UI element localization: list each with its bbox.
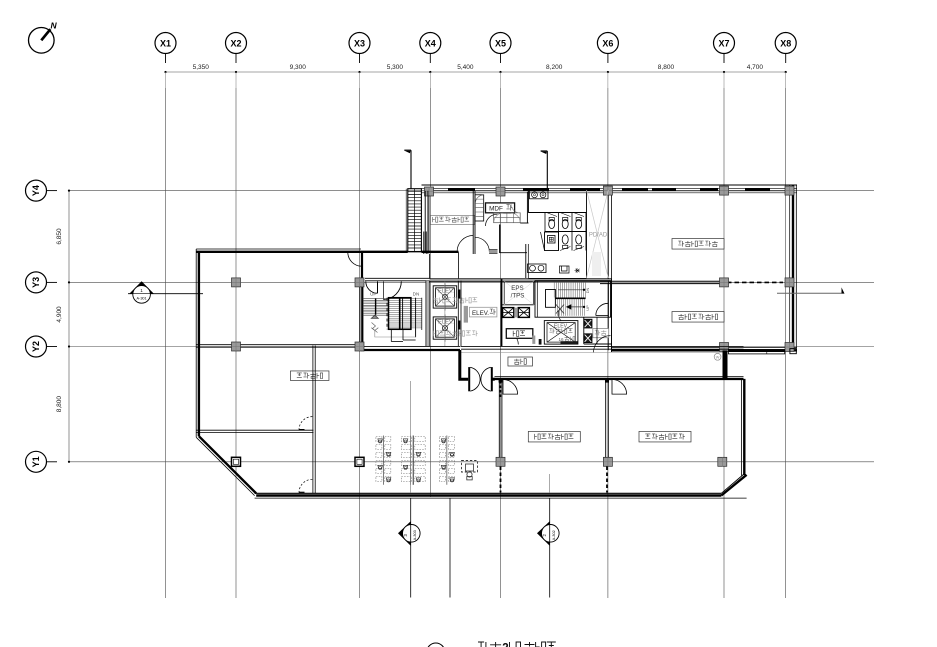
vertical dimension line — [68, 191, 70, 462]
elevator hall east wall — [457, 281, 459, 347]
elevator labels korean — [433, 298, 478, 337]
svg-text:ELEV.: ELEV. — [438, 289, 454, 295]
svg-text:5,350: 5,350 — [193, 64, 210, 71]
section marker left of building — [128, 281, 203, 303]
shaft boxes near right vestibule — [584, 319, 592, 342]
stairwell west wall on X3 — [359, 280, 361, 348]
section line 2 lower — [537, 499, 559, 598]
mid wall on Y3 (dashed part) — [727, 281, 783, 283]
svg-text:UP: UP — [585, 305, 590, 311]
columns on Y3 row — [232, 278, 241, 287]
svg-text:A-301: A-301 — [137, 297, 147, 301]
svg-text:8,800: 8,800 — [56, 396, 63, 413]
south outline wall — [255, 492, 722, 494]
grand stair door arc — [596, 303, 608, 315]
room label 근린생활시설 (upper) — [672, 239, 724, 250]
toilet top counter with 2 basins — [530, 191, 549, 199]
partition wall X6 lower — [605, 379, 607, 457]
svg-text:A-302: A-302 — [552, 530, 556, 540]
diagonal outline wall — [196, 437, 254, 495]
west wall of lounge room — [424, 191, 426, 252]
small circled number near X7 — [714, 353, 721, 360]
duct boxes below EPS — [503, 308, 530, 318]
svg-text:EPS: EPS — [511, 285, 523, 292]
elevator shaft 2 — [433, 314, 457, 341]
room label 복도 — [508, 357, 533, 366]
grid bubble Y2 — [26, 336, 58, 357]
svg-text:DN: DN — [585, 288, 590, 294]
svg-text:Y2: Y2 — [31, 341, 41, 352]
svg-text:X5: X5 — [495, 38, 506, 48]
room label 근린생활시설 (mid-right) — [672, 312, 724, 323]
section line 2 through room — [549, 474, 551, 493]
svg-text:ELEV.: ELEV. — [438, 320, 454, 326]
exterior escape stair hatch — [406, 189, 421, 252]
svg-text:4,900: 4,900 — [56, 306, 63, 323]
window glazing segments on north wall — [448, 189, 475, 191]
grid bubble X2 — [226, 33, 247, 64]
EPS/TPS room — [502, 279, 535, 346]
elevator doors east side — [458, 290, 460, 299]
toilet stalls lower row — [559, 232, 587, 251]
wall from MDF corner to south — [499, 225, 501, 254]
stair newel box — [389, 298, 411, 330]
south wall of upper-right block — [611, 347, 797, 349]
womens counter with 2 basins — [528, 264, 547, 273]
grid bubble X8 — [775, 33, 796, 64]
svg-text:Y4: Y4 — [31, 185, 41, 196]
cleaning room with basin — [541, 232, 559, 251]
top outline wall — [196, 248, 361, 250]
black stub left of disabled elev — [539, 339, 542, 345]
section marker 3 circle — [398, 521, 420, 545]
extra vertical line below building — [449, 499, 451, 598]
grand stair arrows — [558, 289, 584, 291]
grid bubble X3 — [349, 33, 370, 64]
svg-text:4,700: 4,700 — [747, 64, 764, 71]
MDF room label MDF실 — [486, 203, 515, 213]
room label 근린생활시설 lower-right — [639, 431, 691, 442]
svg-text:X4: X4 — [425, 38, 436, 48]
svg-text:X2: X2 — [230, 38, 241, 48]
horizontal dimension line — [166, 71, 786, 73]
southeast chamfer — [721, 475, 746, 496]
svg-text:X3: X3 — [354, 38, 365, 48]
desk clusters — [376, 436, 391, 485]
wall under lounge west — [429, 254, 431, 279]
door arcs into retail rooms — [503, 380, 518, 395]
bottom caption title — [478, 642, 556, 647]
svg-text:W: W — [716, 355, 720, 359]
vestibule label 전실 (right) — [593, 329, 609, 338]
grid bubble X5 — [490, 33, 511, 64]
stair flights treads (center+right) — [389, 299, 422, 328]
corridor east end wall — [723, 351, 728, 379]
MDF door arc — [486, 214, 498, 226]
section line 3 through office — [410, 381, 412, 493]
vestibule door arc left — [506, 332, 519, 345]
door arc right vestibule — [594, 336, 611, 353]
toilet block outer walls — [528, 191, 530, 213]
svg-text:Y3: Y3 — [31, 277, 41, 288]
small table with chair — [462, 461, 478, 480]
small stair strip next to lounge — [475, 195, 484, 221]
svg-text:X7: X7 — [718, 38, 729, 48]
columns on Y2 row — [232, 342, 241, 351]
svg-text:PD/AD: PD/AD — [589, 233, 608, 239]
svg-text:N: N — [51, 21, 58, 31]
section line 3 lower — [410, 499, 412, 598]
MDF east wall — [526, 192, 528, 224]
bottom caption circle — [427, 643, 445, 647]
wall connector X3 above Y3 — [361, 253, 363, 279]
svg-text:/TPS: /TPS — [511, 293, 525, 300]
svg-text:Y1: Y1 — [31, 456, 41, 467]
svg-text:A-303: A-303 — [413, 530, 417, 540]
north arrow — [29, 21, 58, 54]
svg-text:6,850: 6,850 — [56, 228, 63, 245]
section line 2 flag — [541, 151, 548, 190]
lounge/MDF dividing wall — [472, 191, 474, 254]
thick wall stubs at corridor door — [460, 350, 468, 379]
grid lines Y1-Y4 — [70, 190, 874, 192]
stair flight treads (left) — [363, 299, 389, 316]
grid bubble X7 — [714, 33, 735, 64]
grand stair break mark — [556, 305, 564, 322]
wall on X6 between PD/AD and retail — [607, 190, 609, 350]
section line right flag — [777, 287, 845, 293]
grid bubble Y4 — [26, 180, 58, 201]
partition wall top stubs — [499, 379, 503, 382]
elevator centerline — [444, 282, 446, 347]
room label 용역원휴게실 — [431, 215, 475, 224]
svg-text:MDF: MDF — [489, 206, 503, 213]
columns on Y1 row — [232, 457, 241, 466]
gray wall segment to MDF wall — [489, 250, 497, 253]
stair grid below MDF label — [494, 204, 521, 223]
office partition horizontal wall — [196, 429, 313, 431]
lounge entrance door arcs — [457, 236, 473, 252]
grand stair mid divider — [555, 297, 586, 299]
west outline wall — [195, 249, 197, 437]
svg-text:9,300: 9,300 — [290, 64, 307, 71]
room label 전실 left — [506, 329, 533, 339]
east outline wall of lower block — [741, 379, 743, 476]
wall right of lounge door — [457, 252, 459, 279]
room label 근린생활시설 lower-left — [528, 431, 580, 442]
corridor north wall (Y2) — [196, 344, 361, 346]
PD/AD shaft — [587, 189, 609, 279]
disabled elevator — [544, 321, 578, 345]
dashed door arcs on partition — [299, 417, 312, 430]
gray stub right of label — [532, 336, 535, 344]
grand stair — [535, 279, 611, 321]
stair side wall stubs — [423, 232, 425, 255]
walls around right vestibule — [583, 317, 585, 344]
svg-text:5,400: 5,400 — [457, 64, 474, 71]
grid bubble Y1 — [26, 451, 58, 472]
stair/elevator dividing wall — [426, 281, 429, 347]
room label 업무시설 — [290, 371, 329, 381]
partition wall X5 lower — [498, 379, 500, 457]
mid wall on Y3 (solid part) — [600, 280, 726, 282]
corridor south wall — [495, 375, 744, 377]
office partition vertical wall — [312, 346, 314, 494]
stair cut dashed line — [386, 298, 388, 330]
grid bubble X6 — [597, 33, 618, 64]
lower landing lines — [390, 329, 392, 341]
ELEV hall label ELEV.홀 — [464, 306, 497, 323]
stair walk arrows — [371, 315, 378, 318]
svg-text:8,800: 8,800 — [658, 64, 675, 71]
svg-text:X8: X8 — [780, 38, 791, 48]
elevator shaft 1 — [433, 283, 457, 310]
grid bubble X1 — [155, 33, 176, 64]
grid bubble Y3 — [26, 272, 58, 293]
svg-text:2: 2 — [502, 643, 508, 647]
Y3 wall of central block — [430, 279, 612, 281]
grid bubble X4 — [420, 33, 441, 64]
svg-text:X1: X1 — [160, 38, 171, 48]
grand stair landing box — [546, 290, 556, 308]
stair rails vertical — [375, 298, 377, 315]
east exterior wall — [789, 185, 791, 351]
dashed hidden wall below door — [499, 381, 501, 397]
toilet mid wall — [545, 231, 587, 233]
svg-text:8,200: 8,200 — [546, 64, 563, 71]
grid line X1 — [165, 88, 167, 598]
window band right of bottom wall — [728, 350, 784, 354]
section line 3 flag — [404, 150, 411, 189]
svg-text:ELEV.: ELEV. — [472, 310, 489, 317]
corridor double door — [469, 367, 492, 391]
door arc at top wall of office — [348, 252, 362, 266]
urinals — [560, 266, 580, 273]
svg-text:5,300: 5,300 — [387, 64, 404, 71]
svg-text:X6: X6 — [602, 38, 613, 48]
stair entry door arcs — [366, 282, 378, 294]
svg-text:UP: UP — [370, 292, 376, 297]
svg-text:DN: DN — [413, 292, 420, 297]
north exterior wall — [422, 184, 798, 186]
columns upper block — [603, 186, 612, 195]
toilet stalls upper row — [529, 213, 587, 232]
